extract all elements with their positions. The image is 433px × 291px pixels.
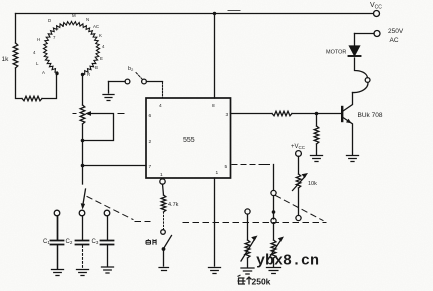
svg-text:7: 7 — [149, 164, 152, 170]
svg-text:555: 555 — [183, 137, 195, 144]
svg-text:2: 2 — [149, 139, 152, 145]
svg-text:N: N — [86, 17, 89, 22]
svg-text:4.7k: 4.7k — [168, 202, 179, 208]
svg-text:H: H — [37, 37, 40, 42]
svg-text:+VCC: +VCC — [291, 144, 306, 150]
svg-text:250k: 250k — [252, 276, 271, 286]
svg-text:AC: AC — [390, 37, 399, 44]
svg-text:F: F — [56, 27, 59, 32]
svg-text:J: J — [62, 23, 64, 28]
svg-text:R: R — [87, 72, 90, 77]
svg-text:3: 3 — [226, 112, 229, 118]
svg-text:5: 5 — [225, 164, 228, 170]
svg-text:ybx8.cn: ybx8.cn — [256, 253, 319, 270]
svg-text:b2: b2 — [128, 66, 134, 72]
svg-text:D: D — [48, 18, 51, 23]
svg-text:C1: C1 — [43, 239, 50, 245]
svg-text:A: A — [42, 70, 45, 75]
svg-text:K: K — [99, 33, 102, 38]
svg-text:MOTOR: MOTOR — [326, 50, 346, 56]
svg-text:E: E — [100, 56, 103, 61]
svg-text:10k: 10k — [308, 181, 317, 187]
svg-text:1k: 1k — [2, 56, 10, 63]
svg-text:M: M — [72, 13, 76, 18]
svg-text:4: 4 — [159, 103, 162, 109]
svg-text:1: 1 — [216, 170, 219, 176]
svg-text:C2: C2 — [66, 239, 73, 245]
svg-text:AC: AC — [93, 24, 99, 29]
svg-text:C3: C3 — [92, 239, 99, 245]
svg-text:6: 6 — [149, 113, 152, 119]
svg-text:1: 1 — [160, 172, 163, 178]
svg-text:250V: 250V — [388, 28, 404, 35]
svg-text:B: B — [95, 65, 98, 70]
svg-text:BUk 708: BUk 708 — [358, 112, 383, 119]
svg-text:8: 8 — [212, 103, 215, 109]
